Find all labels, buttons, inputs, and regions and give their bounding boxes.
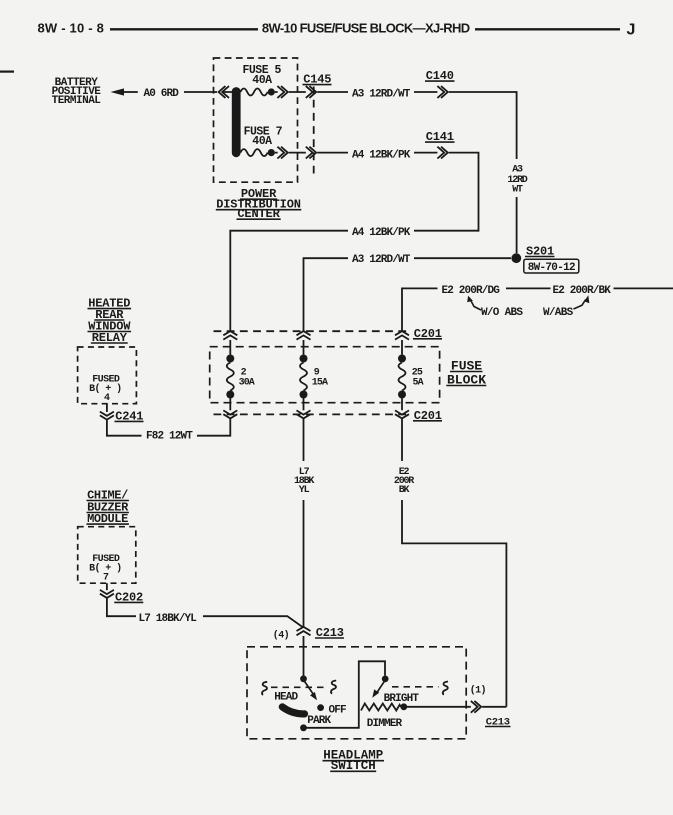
svg-text:4: 4 bbox=[104, 393, 110, 404]
svg-text:7: 7 bbox=[103, 573, 109, 584]
wire A4 12BK/PK return to fuse block bbox=[230, 153, 478, 331]
wire L7 18BK/YL horizontal bbox=[107, 598, 304, 627]
wire into switch (L7) bbox=[303, 636, 305, 676]
svg-text:A3: A3 bbox=[512, 164, 523, 175]
svg-text:HEAD: HEAD bbox=[274, 691, 298, 703]
note W/ABS bbox=[543, 295, 589, 319]
power distribution center box bbox=[214, 58, 298, 182]
module terminal FUSED B(+) bbox=[89, 554, 121, 575]
fuse 9 15A bbox=[300, 340, 329, 410]
page edge tick bbox=[0, 70, 14, 72]
caption POWER DISTRIBUTION CENTER bbox=[216, 187, 301, 221]
battery positive terminal label bbox=[52, 77, 102, 107]
connector C201 (top) bbox=[214, 327, 443, 341]
mechanical linkage dashes bbox=[262, 681, 448, 695]
svg-text:A3 12RD/WT: A3 12RD/WT bbox=[352, 89, 411, 101]
arrow from battery terminal bbox=[111, 88, 138, 95]
connector C202 bbox=[100, 590, 143, 605]
caption HEADLAMP SWITCH bbox=[323, 748, 385, 773]
wire module to C202 bbox=[106, 583, 108, 590]
svg-text:OFF: OFF bbox=[329, 705, 347, 717]
svg-text:TERMINAL: TERMINAL bbox=[52, 95, 102, 107]
wire A3 12RD/WT from C140 down to S201 bbox=[449, 92, 528, 253]
svg-text:5A: 5A bbox=[413, 378, 424, 389]
svg-text:BK: BK bbox=[399, 485, 410, 496]
svg-text:A0 6RD: A0 6RD bbox=[144, 88, 180, 100]
wire A4 12BK/PK (second row) bbox=[317, 149, 437, 161]
svg-text:E2 200R/BK: E2 200R/BK bbox=[553, 285, 612, 297]
wire A3 12RD/WT to fuse block bbox=[304, 254, 512, 331]
note W/O ABS bbox=[467, 296, 523, 319]
connector C201 (bottom) bbox=[214, 409, 443, 423]
heated rear window relay caption bbox=[88, 297, 132, 345]
chime/buzzer module caption bbox=[87, 488, 130, 526]
wire E2 200R BK vertical bbox=[394, 419, 507, 707]
svg-text:(4): (4) bbox=[273, 629, 289, 641]
connector C241 bbox=[100, 410, 144, 424]
wire park contact to dimmer rheostat bbox=[304, 661, 386, 728]
wire L7 18BK/YL vertical bbox=[294, 419, 314, 627]
wire E2 200R/BK bbox=[553, 285, 673, 297]
wire dimmer output to C213 bbox=[407, 706, 471, 708]
svg-text:(1): (1) bbox=[470, 685, 486, 697]
wire F82 12WT bbox=[107, 419, 230, 443]
wire A0 6RD bbox=[144, 88, 234, 100]
svg-text:8W-70-12: 8W-70-12 bbox=[528, 262, 575, 274]
relay terminal FUSED B(+) bbox=[89, 375, 121, 396]
svg-text:PARK: PARK bbox=[307, 715, 331, 727]
connector C145 bbox=[303, 73, 332, 176]
headlamp switch box bbox=[247, 647, 466, 739]
heated rear window relay box bbox=[78, 347, 137, 404]
fuse 7 output connector bbox=[277, 147, 287, 159]
wire fuse 7 to C145 bbox=[275, 152, 306, 154]
dimmer rheostat BRIGHT/DIMMER bbox=[361, 676, 419, 731]
svg-text:A3 12RD/WT: A3 12RD/WT bbox=[352, 254, 411, 266]
wire relay to C241 bbox=[106, 404, 108, 412]
wire C213 to E2 feed bbox=[482, 706, 506, 708]
connector C141 bbox=[425, 130, 455, 158]
headlamp switch wiper HEAD/OFF/PARK bbox=[274, 675, 346, 731]
caption FUSE BLOCK bbox=[446, 358, 486, 387]
svg-text:W/O ABS: W/O ABS bbox=[481, 307, 523, 319]
svg-text:40A: 40A bbox=[252, 74, 272, 87]
wire A3 12RD/WT (top row) bbox=[317, 89, 437, 101]
page header bbox=[38, 20, 636, 38]
fuse block box bbox=[210, 347, 440, 403]
wire E2 200R/DG bbox=[402, 285, 551, 331]
fuse 5 output connector bbox=[277, 86, 287, 98]
fuse F7 40A bbox=[240, 126, 282, 157]
connector C213 (1) bbox=[470, 685, 511, 729]
svg-text:L7 18BK/YL: L7 18BK/YL bbox=[139, 613, 198, 625]
svg-text:J: J bbox=[627, 21, 636, 38]
svg-text:15A: 15A bbox=[312, 378, 328, 389]
wire fuse 5 to C145 bbox=[275, 91, 306, 93]
splice S201 bbox=[511, 245, 578, 274]
svg-text:30A: 30A bbox=[239, 378, 255, 389]
svg-text:WT: WT bbox=[512, 184, 523, 195]
svg-text:YL: YL bbox=[299, 485, 310, 496]
svg-text:8W - 10 - 8: 8W - 10 - 8 bbox=[38, 20, 105, 35]
connector C213 (4) bbox=[273, 626, 344, 641]
fuse F5 40A bbox=[240, 64, 281, 95]
svg-text:E2 200R/DG: E2 200R/DG bbox=[442, 285, 501, 297]
fuse 25 5A bbox=[398, 340, 424, 410]
svg-text:F82 12WT: F82 12WT bbox=[146, 431, 193, 443]
svg-text:40A: 40A bbox=[252, 135, 272, 148]
chime/buzzer module box bbox=[78, 527, 136, 584]
connector C140 bbox=[425, 69, 455, 98]
svg-text:8W-10 FUSE/FUSE BLOCK—XJ-RHD: 8W-10 FUSE/FUSE BLOCK—XJ-RHD bbox=[262, 20, 470, 35]
svg-text:BRIGHT: BRIGHT bbox=[384, 693, 420, 705]
svg-text:A4 12BK/PK: A4 12BK/PK bbox=[352, 149, 411, 161]
fuse 2 30A bbox=[226, 340, 255, 410]
svg-text:DIMMER: DIMMER bbox=[367, 718, 403, 730]
bus bar bbox=[232, 92, 241, 153]
svg-text:A4 12BK/PK: A4 12BK/PK bbox=[352, 227, 411, 239]
connector (PDC input) bbox=[219, 86, 229, 98]
svg-text:W/ABS: W/ABS bbox=[543, 307, 574, 319]
